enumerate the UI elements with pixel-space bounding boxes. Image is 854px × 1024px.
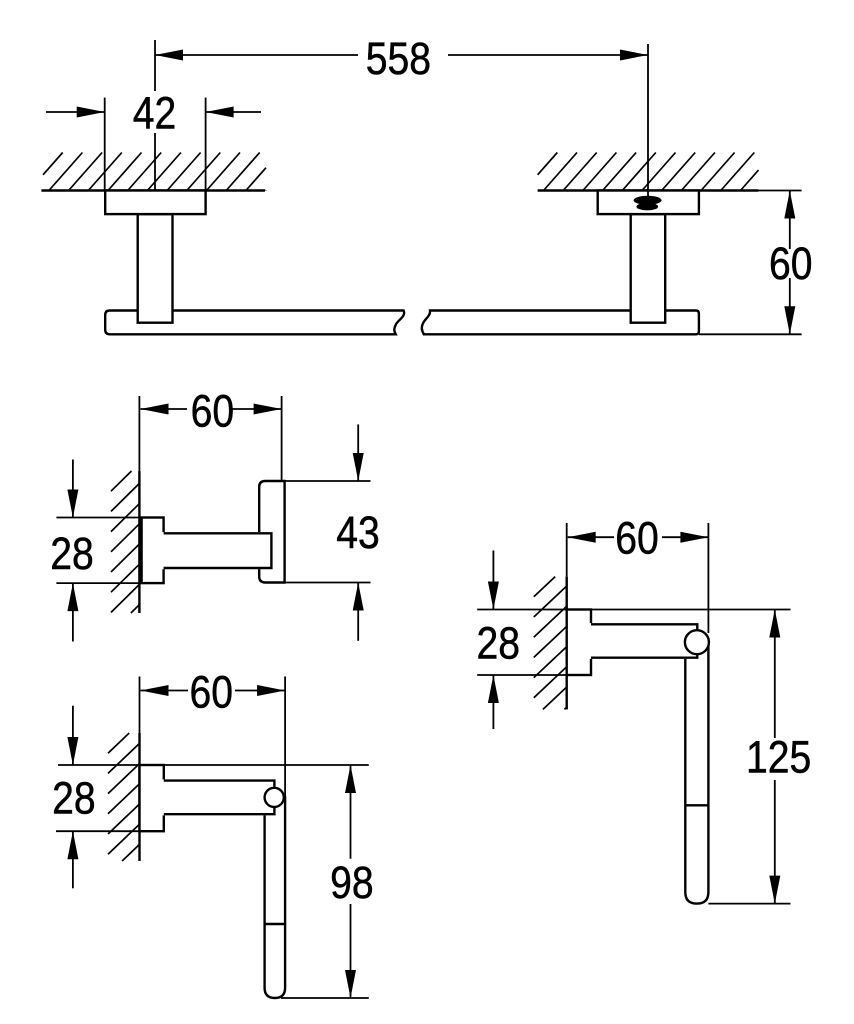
post right	[631, 214, 666, 323]
dimension 28 holder B	[476, 551, 566, 730]
mounting plate left	[105, 191, 205, 215]
holder B post joint	[685, 804, 708, 806]
hook wall plate	[142, 518, 164, 584]
dimension 28 hook	[50, 460, 141, 642]
holder A pivot	[265, 788, 284, 807]
reference line holder B	[477, 609, 790, 611]
holder B arm	[589, 623, 699, 659]
dimension 98	[281, 765, 374, 998]
wall section holder B	[534, 577, 567, 710]
centerline right post	[647, 152, 649, 197]
dimension 60 holder B	[567, 513, 709, 633]
post left	[138, 214, 173, 323]
svg-text:60: 60	[189, 667, 233, 717]
holder A arm	[162, 779, 276, 815]
hook arm	[162, 532, 273, 569]
dimension 60 holder A	[140, 667, 286, 797]
holder A post	[265, 797, 286, 998]
svg-text:125: 125	[746, 732, 811, 782]
reference line holder A	[58, 764, 369, 766]
svg-text:28: 28	[476, 618, 520, 668]
towel bar left segment	[105, 311, 404, 335]
dimension 60 hook	[139, 386, 281, 481]
svg-text:28: 28	[52, 773, 96, 823]
dimension 42	[46, 88, 261, 191]
wall section holder A	[108, 733, 140, 861]
holder A post joint	[265, 923, 286, 925]
holder B plate	[567, 610, 591, 676]
svg-text:98: 98	[330, 858, 374, 908]
svg-text:43: 43	[336, 507, 380, 557]
wall section top-left	[41, 153, 266, 191]
svg-text:42: 42	[133, 88, 177, 138]
dimension 60 height	[699, 191, 813, 335]
svg-text:558: 558	[366, 33, 431, 83]
dimension 43	[285, 424, 380, 640]
holder B pivot	[685, 630, 709, 654]
svg-text:28: 28	[50, 529, 94, 579]
dimension 558	[155, 33, 648, 190]
towel bar right segment	[422, 311, 699, 335]
screw head	[634, 196, 662, 211]
svg-text:60: 60	[769, 238, 813, 288]
svg-text:60: 60	[191, 386, 235, 436]
holder A plate	[140, 765, 164, 831]
holder B post	[685, 642, 708, 904]
wall section top-right	[538, 153, 759, 191]
mounting plate right	[598, 191, 699, 215]
dimension 125	[708, 610, 811, 904]
dimension 28 holder A	[52, 706, 141, 889]
wall section hook	[111, 471, 139, 613]
svg-text:60: 60	[615, 513, 659, 563]
hook front plate	[259, 481, 284, 583]
